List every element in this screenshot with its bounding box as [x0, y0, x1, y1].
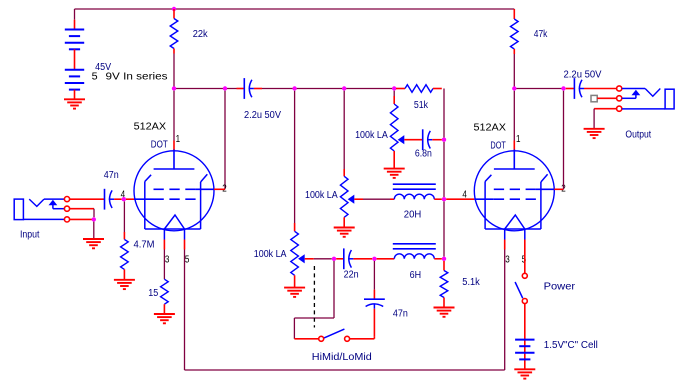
wire switch to battery B2 — [524, 304, 526, 340]
wire bus to pin4 V2 — [446, 198, 474, 200]
svg-text:47n: 47n — [104, 170, 119, 181]
label pin 5 V2 — [522, 254, 527, 265]
label 51k — [414, 100, 429, 111]
ground pot3 — [284, 288, 305, 297]
label 100k LA (pot3) — [254, 249, 287, 260]
wire pin2 V2 tail — [554, 188, 563, 190]
label Output — [625, 130, 651, 141]
node bus / 6.8n — [442, 138, 446, 142]
capacitor C3 22n — [336, 248, 372, 269]
wire rail to pot1 — [393, 91, 395, 104]
op-amp: triode V1 512AX — [134, 150, 214, 240]
resistor 4.7M — [121, 239, 129, 279]
wire plate2 node rail — [514, 88, 563, 90]
wire pin2 V2 riser — [563, 91, 565, 190]
svg-text:6.8n: 6.8n — [415, 149, 432, 160]
wire input ring jumper — [70, 209, 94, 218]
wire node to 4.7M — [123, 201, 125, 239]
wire plate node to pin1 V2 — [513, 91, 515, 151]
inductor 20H — [393, 184, 442, 199]
wire lug to ring — [597, 97, 616, 99]
wire top rail — [75, 8, 515, 10]
ground pot2 — [334, 228, 355, 237]
svg-text:4.7M: 4.7M — [134, 240, 155, 251]
wire bus 6.8n to 20H node — [443, 142, 445, 197]
node grid1 / 4.7M — [122, 197, 126, 201]
label pin 4 V1 — [121, 189, 126, 200]
wire 22n node to switch (Z route) — [294, 261, 334, 339]
label 2.2u 50V (C5) — [564, 70, 602, 81]
resistor 51k — [396, 85, 442, 93]
svg-text:1: 1 — [176, 134, 181, 145]
label 47n (C4) — [393, 308, 408, 319]
label pin 2 V1 — [222, 183, 227, 194]
node bus / 6H / 5.1k — [442, 257, 446, 261]
svg-text:100k LA: 100k LA — [254, 249, 287, 260]
resistor 47k — [511, 9, 519, 54]
label pin 5 V1 — [185, 254, 190, 265]
wire bus 51k to 6.8n node — [443, 89, 445, 138]
svg-text:DOT: DOT — [151, 140, 168, 151]
svg-text:Output: Output — [625, 130, 651, 141]
node plate1 / 22k — [172, 86, 176, 90]
label DOT (V2) — [490, 140, 506, 151]
ground 5.1k — [434, 308, 455, 317]
label 6H — [410, 270, 422, 281]
label pin 1 V2 — [516, 134, 521, 145]
label 6.8n — [415, 149, 432, 160]
output jack J2 — [617, 86, 674, 111]
mechanical link dashed line — [313, 266, 315, 328]
node tone rail / pot3 drop — [292, 86, 296, 90]
wire plate node to pin1 V1 — [173, 91, 175, 151]
label pin 3 V2 — [505, 254, 510, 265]
battery B1 45V (5x9V) — [65, 9, 84, 99]
svg-text:2.2u 50V: 2.2u 50V — [564, 70, 602, 81]
wire rail to pot3 — [294, 91, 296, 232]
svg-text:3: 3 — [505, 254, 510, 265]
svg-text:47k: 47k — [534, 29, 548, 40]
resistor 5.1k — [440, 261, 448, 308]
label 45V — [95, 62, 111, 73]
svg-text:5: 5 — [92, 72, 98, 83]
wire rail to pot2 — [343, 91, 345, 177]
label 512AX (V2) — [474, 123, 507, 134]
ground battery B1 — [64, 99, 85, 108]
svg-text:22n: 22n — [344, 270, 359, 281]
node bus / 20H / pin4 V2 — [442, 197, 446, 201]
capacitor C6 47n — [105, 189, 122, 210]
label 22n — [344, 270, 359, 281]
label 2.2u 50V (C1) — [244, 110, 281, 121]
wire pin3 V2 stub — [504, 240, 506, 250]
svg-text:51k: 51k — [414, 100, 429, 111]
label 47k — [534, 29, 548, 40]
svg-text:15: 15 — [148, 288, 158, 299]
label Power — [544, 282, 576, 293]
label 100k LA (pot2) — [305, 190, 338, 201]
svg-text:5.1k: 5.1k — [462, 277, 480, 288]
wire pin2 V1 tail — [214, 188, 225, 190]
svg-text:6H: 6H — [410, 270, 422, 281]
ground input jack — [83, 239, 104, 248]
wire 47k to plate node — [513, 54, 515, 89]
wire output sleeve — [594, 109, 617, 129]
wire C1 to tone nodes — [262, 88, 396, 90]
label 1.5V C Cell — [544, 340, 598, 351]
svg-text:100k LA: 100k LA — [305, 190, 338, 201]
label 5.1k — [462, 277, 480, 288]
svg-text:20H: 20H — [404, 210, 422, 221]
wire bus 20H to 6H node — [443, 201, 445, 256]
svg-text:2.2u 50V: 2.2u 50V — [244, 110, 281, 121]
label 5 9V In series — [92, 72, 168, 83]
capacitor C1 2.2u 50V — [237, 78, 263, 99]
label pin 4 V2 — [462, 190, 467, 201]
wire plate1 node rail — [174, 88, 237, 90]
ground 15 — [154, 314, 175, 323]
svg-text:22k: 22k — [193, 29, 209, 40]
label 512AX (V1) — [134, 122, 167, 133]
svg-text:512AX: 512AX — [134, 122, 167, 133]
svg-text:100k LA: 100k LA — [355, 130, 388, 141]
svg-text:5: 5 — [185, 254, 190, 265]
svg-text:1.5V"C" Cell: 1.5V"C" Cell — [544, 340, 598, 351]
svg-text:Input: Input — [20, 230, 40, 241]
ground 4.7M — [114, 280, 135, 289]
capacitor C2 6.8n — [404, 129, 442, 150]
potentiometer 100k LA pot1 — [390, 104, 404, 169]
svg-text:47n: 47n — [393, 308, 408, 319]
wire pin5 V2 to switch — [524, 240, 526, 274]
ground battery B2 — [514, 369, 535, 378]
capacitor C5 2.2u 50V — [566, 78, 617, 99]
switch SW2 Power — [515, 273, 527, 303]
wire input tip to C6 — [70, 198, 105, 200]
switch SW1 HiMid/LoMid — [319, 329, 350, 341]
node plate2 / pin2 / C5 — [561, 86, 565, 90]
label 20H — [404, 210, 422, 221]
battery B2 1.5V C cell — [515, 340, 534, 370]
wire pin5 V1 down — [184, 240, 186, 250]
label 4.7M — [134, 240, 155, 251]
label pin 2 V2 — [561, 183, 566, 194]
resistor 15 — [161, 279, 169, 314]
solder lug grey square — [591, 95, 597, 101]
node plate1 / pin2 — [223, 86, 227, 90]
wire sleeve to ground — [93, 222, 95, 239]
wire pot3 wiper to 22n node — [305, 258, 332, 260]
ground output jack — [584, 129, 605, 138]
wire node to C4 — [373, 261, 375, 299]
label 15 — [148, 288, 158, 299]
label Input — [20, 230, 40, 241]
svg-text:3: 3 — [165, 254, 170, 265]
wire pot2 wiper to 20H — [354, 198, 394, 200]
svg-text:512AX: 512AX — [474, 123, 507, 134]
node 22n left — [332, 257, 336, 261]
node plate2 / 47k — [512, 86, 516, 90]
label pin 3 V1 — [165, 254, 170, 265]
label 47n (C6) — [104, 170, 119, 181]
label HiMid/LoMid — [312, 352, 372, 363]
node plate supply rail / 22k top — [172, 7, 176, 11]
node tone rail / pot1+51k — [392, 86, 396, 90]
node 22n right / 6H / 47n — [372, 257, 376, 261]
svg-text:DOT: DOT — [490, 140, 506, 151]
wire node to pin4 V1 — [126, 198, 134, 200]
label 100k LA (pot1) — [355, 130, 388, 141]
svg-text:1: 1 — [516, 134, 521, 145]
wire input sleeve — [70, 218, 94, 220]
svg-text:4: 4 — [462, 190, 467, 201]
wire pin2 V1 riser — [224, 91, 226, 190]
svg-text:HiMid/LoMid: HiMid/LoMid — [312, 352, 372, 363]
potentiometer 100k LA pot2 — [340, 176, 354, 227]
wire C4 to switch — [350, 309, 375, 339]
node tone rail / pot2 drop — [342, 86, 346, 90]
resistor 22k — [170, 9, 178, 54]
label DOT (V1) — [151, 140, 168, 151]
wire pin3 V1 to 15 — [163, 240, 165, 280]
wire 22k to plate node — [173, 54, 175, 89]
node input sleeve junction — [92, 217, 96, 221]
ground pot1 — [384, 169, 405, 178]
op-amp: triode V2 512AX — [474, 150, 554, 240]
label 22k — [193, 29, 209, 40]
wire bottom rail — [185, 250, 505, 371]
svg-text:9V In series: 9V In series — [106, 72, 168, 83]
svg-text:Power: Power — [544, 282, 576, 293]
label pin 1 V1 — [176, 134, 181, 145]
inductor 6H — [377, 244, 442, 259]
potentiometer 100k LA pot3 — [291, 231, 305, 287]
input jack J1 — [14, 197, 69, 222]
capacitor C4 47n — [364, 299, 385, 309]
